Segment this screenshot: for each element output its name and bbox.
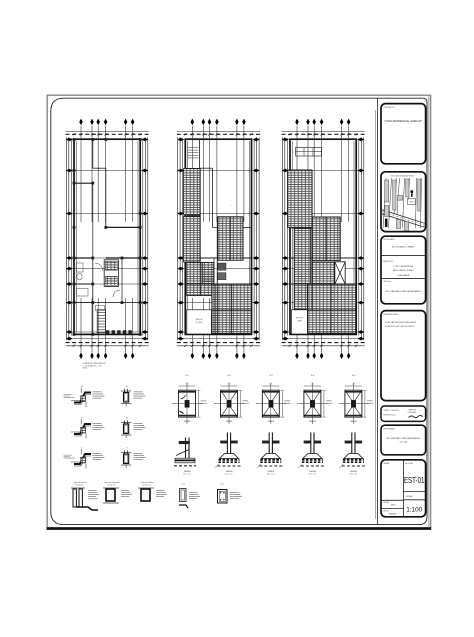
plan 2 dark column rects — [218, 263, 226, 270]
svg-text:ZAPATA: ZAPATA — [350, 470, 357, 473]
svg-text:JUNIO: JUNIO — [390, 505, 396, 507]
svg-text:ESC. 1:25: ESC. 1:25 — [350, 474, 357, 476]
title box: location map — [381, 172, 426, 232]
svg-text:Capa de remate: Capa de remate — [73, 481, 87, 484]
plan 2 slab hatch middle — [218, 217, 244, 260]
svg-text:ESC. 1:25: ESC. 1:25 — [225, 474, 232, 476]
plan 3 interior dividers — [290, 257, 356, 259]
plan 2 dimension ticks — [184, 133, 186, 135]
plan 3 slab hatch middle lower — [312, 262, 334, 284]
plan 1 interior walls — [92, 140, 94, 169]
svg-text:GARCIA F.: GARCIA F. — [389, 513, 398, 516]
svg-text:DIBUJO:: DIBUJO: — [383, 511, 390, 513]
svg-text:CALCULO:: CALCULO: — [383, 280, 392, 283]
svg-text:ZAPATA: ZAPATA — [226, 420, 233, 423]
date rows — [381, 499, 403, 501]
title block divider — [377, 99, 379, 525]
plan 3 slab hatch middle upper — [312, 217, 340, 261]
sheet inner frame — [51, 98, 427, 524]
plan 3 horizontal grid lines with arrowheads — [283, 139, 364, 141]
plan 2 bottom dimension lines — [177, 342, 260, 344]
svg-text:NOTA: LAS MEDIDAS ESTAN DADAS: NOTA: LAS MEDIDAS ESTAN DADAS — [385, 321, 417, 324]
svg-text:CROQUIS DE UBICACION S/E: CROQUIS DE UBICACION S/E — [390, 175, 415, 178]
engineer stamp box — [381, 425, 426, 455]
plan 1 small room arcs — [95, 263, 103, 271]
plan 3 elevator shaft X-brace — [335, 262, 345, 284]
svg-text:ESC. 1:25: ESC. 1:25 — [267, 474, 274, 476]
plan 1 bottom dimension lines — [66, 342, 149, 344]
svg-text:ZAPATA: ZAPATA — [268, 470, 275, 473]
plan 2 bottom-left room — [187, 310, 212, 334]
zapata Z-1 section detail — [176, 443, 189, 456]
plan 2 slab beam subdivisions — [229, 217, 231, 260]
plan 2 horizontal grid lines with arrowheads — [178, 139, 259, 141]
map blocks — [385, 180, 389, 202]
plan 3 vertical dimension chains — [284, 137, 286, 340]
plan 2 interior dividers — [185, 257, 251, 259]
svg-text:ZAPATA: ZAPATA — [350, 420, 357, 423]
svg-text:PLANTA DE CIMENTACION: PLANTA DE CIMENTACION — [83, 362, 106, 365]
left detail leader stub — [64, 457, 75, 459]
right edge gray band line — [428, 96, 430, 528]
map location pin — [410, 190, 413, 193]
plan 3 top dimension boxes — [296, 148, 322, 157]
svg-text:EST-01: EST-01 — [404, 476, 425, 485]
svg-text:AZOTEA: AZOTEA — [296, 317, 304, 320]
plan 2 slab hatch bottom — [212, 284, 251, 333]
map north bar — [385, 219, 387, 227]
plan 1 dimension ticks — [73, 133, 75, 135]
plan 2 slab hatch left strip B — [184, 217, 200, 263]
svg-text:PROPIETARIO:: PROPIETARIO: — [383, 238, 395, 241]
plan 1 vertical dimension chains — [68, 137, 70, 340]
plan 3 bottom-left room — [292, 310, 308, 334]
plan 2 top dimension lines — [177, 130, 260, 132]
sheet id box — [381, 460, 426, 517]
svg-text:ZAPATA: ZAPATA — [309, 470, 316, 473]
plan 3 slab hatch left lower — [294, 229, 311, 310]
svg-text:COL. 801: COL. 801 — [399, 441, 407, 443]
plan 1 column nubs — [73, 138, 76, 141]
svg-text:ZAPATA: ZAPATA — [184, 420, 191, 423]
svg-text:ING. JUAN PABLO GARCIA FERNAND: ING. JUAN PABLO GARCIA FERNANDEZ — [386, 437, 421, 440]
svg-text:ZAPATA: ZAPATA — [226, 470, 233, 473]
svg-text:"CASA RESIDENCIAL ALMELAT": "CASA RESIDENCIAL ALMELAT" — [384, 119, 422, 123]
svg-text:ZAPATA: ZAPATA — [184, 470, 191, 473]
plan 2 entry stair lines — [188, 147, 199, 149]
svg-text:FLORES: FLORES — [196, 322, 204, 324]
svg-text:DIRECCION:: DIRECCION: — [383, 261, 393, 263]
plan 3 boundary walls — [290, 139, 356, 334]
zapata Z-2 section detail — [226, 433, 228, 454]
info box: owner / builder / engineer — [381, 236, 426, 304]
plan 3 bottom dimension lines — [282, 342, 365, 344]
svg-text:TANQUE: TANQUE — [196, 318, 204, 321]
svg-text:ZAPATA: ZAPATA — [309, 420, 316, 423]
plan 1 bottom wall dashed dark band — [106, 330, 133, 333]
map streets — [383, 178, 386, 228]
plan 2 panel beam edges — [199, 169, 201, 296]
sheet bottom thick edge — [47, 527, 432, 530]
plan 1 stair block with hatched treads — [104, 260, 118, 287]
svg-text:ESC. 1:25: ESC. 1:25 — [183, 474, 190, 476]
svg-text:PROYECTO:: PROYECTO: — [384, 107, 396, 109]
plan 1 boundary walls — [74, 139, 140, 334]
svg-text:VALLE VERDE, ZONA 4: VALLE VERDE, ZONA 4 — [393, 269, 414, 272]
svg-text:ESCALA:: ESCALA: — [406, 495, 414, 498]
left detail leader stub — [64, 397, 75, 399]
plan 3 slab hatch left strip — [288, 170, 312, 228]
zapata Z-4 section detail — [310, 433, 312, 454]
plan 3 top dimension lines — [282, 130, 365, 132]
approval box with signature — [381, 406, 426, 421]
plan 2 boundary walls — [185, 139, 251, 334]
svg-text:GUATEMALA: GUATEMALA — [398, 274, 410, 277]
plan 3 dimension ticks — [289, 133, 291, 135]
svg-text:Capa de azotea: Capa de azotea — [140, 481, 154, 484]
svg-text:ING. RICARDO CHAVEZ: ING. RICARDO CHAVEZ — [392, 246, 415, 249]
svg-text:ING. JUAN PABLO GARCIA HERNAND: ING. JUAN PABLO GARCIA HERNANDEZ — [386, 290, 422, 293]
plan 1 lower stair treads — [97, 309, 105, 311]
plan 2 vertical grid lines with arrowheads — [191, 126, 193, 222]
svg-text:NIVEL 1: NIVEL 1 — [83, 368, 89, 370]
svg-text:ESC. 1:25: ESC. 1:25 — [309, 474, 316, 476]
plan 2 slab hatch mid-left band — [187, 262, 214, 295]
svg-text:ZAPATA: ZAPATA — [268, 420, 275, 423]
plan 3 slab hatch bottom — [308, 284, 356, 333]
zapata Z-3 section detail — [268, 433, 270, 454]
svg-text:EN METROS, ACOTACION EN MTS.: EN METROS, ACOTACION EN MTS. — [385, 325, 415, 328]
svg-text:REVISION No. 01: REVISION No. 01 — [383, 414, 396, 416]
map diagonal road — [381, 210, 427, 225]
svg-text:1:100: 1:100 — [406, 507, 422, 514]
plan 3 slab beam subdivisions — [325, 217, 327, 261]
plan 3 vertical grid lines with arrowheads — [296, 126, 298, 222]
svg-text:LOTE 7, RESIDENCIAL: LOTE 7, RESIDENCIAL — [393, 265, 413, 268]
plan 3 panel beam edges — [311, 170, 313, 310]
signature squiggle — [409, 415, 423, 417]
svg-text:LIBRE: LIBRE — [297, 321, 303, 323]
svg-text:SITIO: SITIO — [409, 201, 414, 203]
plan 2 stair treads — [203, 262, 214, 264]
plan 1 horizontal grid lines with arrowheads — [67, 139, 148, 141]
title box: project — [381, 104, 426, 164]
svg-text:Capa de entrepiso: Capa de entrepiso — [104, 481, 119, 484]
plan 2 top-right roof outline — [199, 140, 201, 169]
notes box — [381, 311, 426, 401]
plan 2 slab hatch left strip A — [184, 169, 200, 216]
plan 2 vertical dimension chains — [179, 137, 181, 340]
plan 1 vertical grid lines with arrowheads — [80, 126, 82, 222]
zapata Z-5 section detail — [351, 433, 353, 454]
svg-text:OBSERVACIONES:: OBSERVACIONES: — [383, 313, 398, 316]
plan 1 bathroom fixtures — [77, 263, 84, 272]
sheet outer border — [47, 95, 430, 528]
plan 1 top dimension lines — [66, 130, 149, 132]
svg-text:TIMBRE DE: TIMBRE DE — [408, 409, 416, 411]
